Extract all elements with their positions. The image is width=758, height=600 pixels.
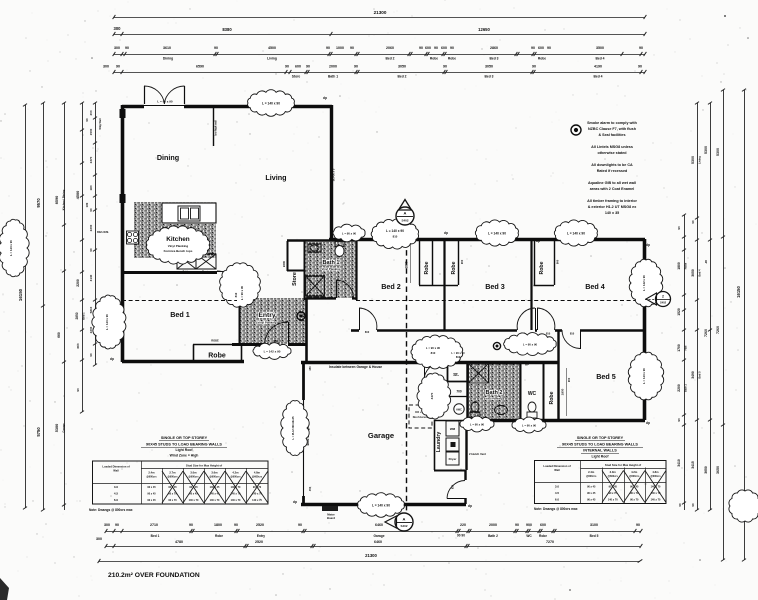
laundry appliances <box>446 421 459 436</box>
svg-text:Fridge: Fridge <box>183 271 191 274</box>
bottom dimension row 3 overall 21300 <box>99 561 640 563</box>
svg-text:L = 90 x 90: L = 90 x 90 <box>470 423 485 427</box>
svg-text:2.7m: 2.7m <box>169 471 176 475</box>
revision cloud below wc <box>512 417 546 433</box>
svg-text:90: 90 <box>636 523 640 527</box>
svg-text:L = 140 x 90: L = 140 x 90 <box>488 232 506 236</box>
laundry bottom wall <box>434 470 465 472</box>
svg-text:Entry: Entry <box>257 534 265 538</box>
svg-text:450: 450 <box>308 366 312 371</box>
svg-text:L = 143 x 90: L = 143 x 90 <box>642 368 646 384</box>
svg-text:areas with 2 Coat Enamel: areas with 2 Coat Enamel <box>590 187 634 191</box>
svg-text:5810: 5810 <box>89 306 93 313</box>
svg-text:90 x 70: 90 x 70 <box>630 499 639 502</box>
dimension row C room widths <box>114 54 645 56</box>
svg-text:90: 90 <box>189 523 193 527</box>
revision cloud bed5 robe dims <box>566 368 568 416</box>
svg-text:Stud Size for Max Height of: Stud Size for Max Height of <box>605 463 641 467</box>
svg-text:Bed 3: Bed 3 <box>485 75 494 79</box>
svg-text:Bed 2: Bed 2 <box>386 57 395 61</box>
left dimension chain 8590 kitchen-dining / 5300 garage <box>64 103 66 510</box>
svg-text:1800: 1800 <box>561 388 565 395</box>
svg-text:Bath 2: Bath 2 <box>485 390 502 396</box>
svg-text:Bed 4: Bed 4 <box>596 57 605 61</box>
svg-text:90: 90 <box>678 503 682 507</box>
svg-text:4190: 4190 <box>594 64 602 68</box>
wall right of living <box>330 105 333 241</box>
svg-text:L = 90 x 90: L = 90 x 90 <box>157 100 173 104</box>
svg-text:21300: 21300 <box>374 10 387 15</box>
svg-text:7260: 7260 <box>704 329 708 337</box>
svg-text:L = 142 x 90: L = 142 x 90 <box>642 275 646 291</box>
svg-text:21300: 21300 <box>365 553 377 558</box>
left dimension chain 16150 overall <box>25 105 27 508</box>
svg-text:4780: 4780 <box>175 540 183 544</box>
svg-text:L = PL12 200-90x45: L = PL12 200-90x45 <box>292 416 295 440</box>
svg-text:5750: 5750 <box>36 427 41 437</box>
svg-text:SINGLE OR TOP STOREY: SINGLE OR TOP STOREY <box>161 436 208 440</box>
svg-text:90: 90 <box>76 388 80 392</box>
bath2 left wall <box>466 362 468 420</box>
svg-text:Note: Dwangs @ 800crs max: Note: Dwangs @ 800crs max <box>89 508 133 512</box>
svg-text:900: 900 <box>556 259 560 264</box>
svg-text:Formica Bench tops: Formica Bench tops <box>164 249 193 253</box>
svg-text:3500: 3500 <box>596 46 604 50</box>
svg-text:90 90: 90 90 <box>457 534 465 538</box>
svg-text:810: 810 <box>546 332 551 336</box>
svg-text:660: 660 <box>57 332 61 338</box>
svg-text:L = 143 x 90: L = 143 x 90 <box>9 240 13 256</box>
svg-text:Bed 1: Bed 1 <box>170 310 190 319</box>
scan smudge bottom left corner <box>0 578 9 600</box>
svg-text:200: 200 <box>89 110 93 115</box>
bed4 door arc <box>537 308 539 330</box>
svg-text:4.5: 4.5 <box>114 492 119 496</box>
svg-text:140 x 70: 140 x 70 <box>210 499 220 502</box>
svg-text:4500: 4500 <box>268 46 276 50</box>
svg-text:90: 90 <box>89 353 93 357</box>
svg-text:Bath 2: Bath 2 <box>684 383 688 391</box>
svg-text:900: 900 <box>567 377 571 382</box>
double entrance door arcs on top wall <box>144 86 146 104</box>
right dimension chain second <box>697 103 699 510</box>
kitchen door arc <box>240 271 242 295</box>
svg-text:Bed 3: Bed 3 <box>490 57 499 61</box>
svg-text:90: 90 <box>419 46 423 50</box>
bed1 robe <box>193 345 195 362</box>
svg-text:90: 90 <box>532 64 536 68</box>
svg-text:2: 2 <box>662 295 664 299</box>
stud table right cross-outs <box>602 471 624 503</box>
svg-text:4500: 4500 <box>76 191 80 199</box>
svg-text:900: 900 <box>526 523 532 527</box>
right dimension chain inner segments <box>684 215 686 510</box>
svg-text:Store: Store <box>292 75 301 79</box>
svg-text:90: 90 <box>515 523 519 527</box>
svg-text:dp: dp <box>110 357 114 361</box>
svg-text:Bath 1: Bath 1 <box>322 260 339 266</box>
svg-text:ROBE: ROBE <box>211 339 219 343</box>
svg-text:2200: 2200 <box>89 326 93 333</box>
svg-text:3650: 3650 <box>704 466 708 474</box>
svg-text:L = 90 x 90: L = 90 x 90 <box>451 351 465 355</box>
svg-text:& exterior H1.2 UT MSG8 ex: & exterior H1.2 UT MSG8 ex <box>588 205 638 209</box>
svg-text:NZBC Clause F7, with flush: NZBC Clause F7, with flush <box>588 127 637 131</box>
svg-text:90: 90 <box>125 46 129 50</box>
svg-text:Bed 2: Bed 2 <box>398 75 407 79</box>
svg-text:90: 90 <box>677 418 681 422</box>
svg-text:1520: 1520 <box>677 308 681 316</box>
svg-text:Vinyl Planking: Vinyl Planking <box>168 244 189 248</box>
svg-text:90: 90 <box>638 64 642 68</box>
svg-text:300: 300 <box>104 523 110 527</box>
svg-text:2.4m: 2.4m <box>148 471 155 475</box>
svg-text:600: 600 <box>538 46 544 50</box>
svg-text:4.8m: 4.8m <box>652 470 659 474</box>
svg-text:2200: 2200 <box>89 224 93 231</box>
smoke alarm hall <box>493 342 500 349</box>
svg-text:4470: 4470 <box>430 392 434 399</box>
bed4 robe <box>534 239 536 285</box>
svg-text:3050: 3050 <box>691 269 695 277</box>
dashed link to section marker <box>645 299 655 301</box>
svg-text:600: 600 <box>425 46 431 50</box>
svg-text:S402: S402 <box>401 219 408 223</box>
svg-text:WC: WC <box>528 391 537 397</box>
bed3-bed4 divider wall <box>530 239 532 330</box>
entry left wall <box>239 298 241 344</box>
svg-text:Store: Store <box>292 272 298 286</box>
svg-text:600: 600 <box>295 64 301 68</box>
wall left exterior of dining and bed1 <box>121 105 125 362</box>
svg-text:90 x 45: 90 x 45 <box>147 493 156 496</box>
svg-text:@600crs: @600crs <box>209 476 220 479</box>
bed2 and bed3 robes <box>419 239 421 285</box>
svg-text:Stud Size for Max Height of: Stud Size for Max Height of <box>186 464 222 468</box>
svg-text:3415: 3415 <box>691 461 695 469</box>
bath1 fixtures basin <box>308 244 321 252</box>
south wall bath2-wc-robe-bed5 <box>466 419 645 423</box>
kitchen island bench and stove <box>162 203 216 223</box>
svg-text:Robe: Robe <box>448 57 456 61</box>
revision cloud on top wall of living <box>248 90 295 117</box>
hall-garage separating wall insulate <box>301 361 558 364</box>
svg-text:90X45 STUDS TO LOAD BEARING WA: 90X45 STUDS TO LOAD BEARING WALLS <box>562 443 638 447</box>
svg-text:2710: 2710 <box>150 523 158 527</box>
svg-text:3140: 3140 <box>89 274 93 281</box>
svg-text:Wdg Wall: Wdg Wall <box>99 118 102 129</box>
svg-text:16150: 16150 <box>18 288 23 301</box>
svg-text:@600crs: @600crs <box>146 476 157 479</box>
svg-text:3050: 3050 <box>398 64 406 68</box>
svg-text:810: 810 <box>570 332 575 336</box>
svg-text:Bed 1: Bed 1 <box>82 312 86 320</box>
svg-text:16150: 16150 <box>736 286 741 298</box>
svg-text:WC: WC <box>526 534 532 538</box>
svg-text:300: 300 <box>114 26 122 31</box>
svg-text:All timber framing to interior: All timber framing to interior <box>587 199 637 203</box>
svg-text:90X45 STUDS TO LOAD BEARING WA: 90X45 STUDS TO LOAD BEARING WALLS <box>146 443 222 447</box>
kitchen cooktop circles <box>127 231 139 244</box>
st closet walls <box>447 363 449 381</box>
svg-text:Robe: Robe <box>430 57 438 61</box>
svg-text:90: 90 <box>89 208 93 212</box>
wall below kitchen <box>122 271 217 274</box>
svg-text:5300: 5300 <box>704 146 708 154</box>
svg-text:Bed 2: Bed 2 <box>381 282 401 291</box>
store walls <box>287 241 289 271</box>
svg-text:6460: 6460 <box>375 523 383 527</box>
svg-text:Robe: Robe <box>538 57 546 61</box>
svg-text:All downlights to be CA: All downlights to be CA <box>591 163 633 167</box>
svg-text:@600crs: @600crs <box>252 476 263 479</box>
svg-text:7270: 7270 <box>546 540 554 544</box>
svg-text:2370: 2370 <box>89 156 93 163</box>
svg-text:1000: 1000 <box>336 46 344 50</box>
svg-text:Living: Living <box>267 57 277 61</box>
svg-text:5300: 5300 <box>691 156 695 164</box>
svg-text:Bed 4: Bed 4 <box>585 282 605 291</box>
svg-text:90: 90 <box>691 220 695 224</box>
svg-text:Bed 4: Bed 4 <box>594 75 603 79</box>
meter board <box>322 506 338 511</box>
svg-text:Living: Living <box>698 156 702 164</box>
svg-text:Insulate between Garage & Hous: Insulate between Garage & House <box>329 365 382 369</box>
garage-laundry door arc <box>447 498 465 500</box>
svg-text:2060: 2060 <box>386 46 394 50</box>
section dashed line A-A vertical <box>406 241 408 512</box>
svg-text:Pantry: Pantry <box>202 271 210 274</box>
svg-text:Kitchen / Dining: Kitchen / Dining <box>62 189 66 210</box>
svg-text:3100: 3100 <box>590 523 598 527</box>
svg-text:90: 90 <box>85 118 89 122</box>
svg-text:810: 810 <box>234 292 238 297</box>
svg-text:8380: 8380 <box>222 27 232 32</box>
revision cloud over left dimension lines <box>0 219 29 276</box>
revision cloud below bath2 <box>460 416 494 432</box>
svg-text:WP: WP <box>525 364 529 367</box>
svg-text:Aqualine GIB to all wet wall: Aqualine GIB to all wet wall <box>588 181 636 185</box>
svg-text:S402: S402 <box>660 301 667 305</box>
svg-text:Vinyl Planking: Vinyl Planking <box>485 398 503 401</box>
svg-text:Bed 5: Bed 5 <box>596 372 616 381</box>
smoke alarm symbol in notes <box>571 125 581 135</box>
revision cloud bottom right of page <box>729 490 758 522</box>
svg-text:dp: dp <box>536 239 540 243</box>
svg-text:S402: S402 <box>400 524 407 528</box>
svg-text:4.5: 4.5 <box>555 491 560 495</box>
kitchen hatched floor <box>134 202 216 258</box>
svg-text:Robe: Robe <box>451 261 457 274</box>
store and bath top wall <box>287 239 356 242</box>
svg-text:2860: 2860 <box>490 46 498 50</box>
wing right exterior wall <box>643 239 647 420</box>
revision cloud kitchen-entry doors <box>220 263 261 307</box>
wall bottom of bed1 <box>122 360 244 364</box>
bedroom corridor wall with door openings <box>351 329 359 332</box>
svg-text:@600crs: @600crs <box>230 476 241 479</box>
smoke alarm entry <box>297 312 305 320</box>
bottom dimension row 2 <box>106 546 640 548</box>
svg-text:810: 810 <box>365 330 370 334</box>
bath2 basin <box>495 406 508 415</box>
svg-text:2 Hutch Vent: 2 Hutch Vent <box>469 452 486 456</box>
svg-text:& Seal facilities: & Seal facilities <box>598 133 625 137</box>
svg-text:-90: -90 <box>704 260 708 265</box>
svg-text:3.0: 3.0 <box>555 485 560 489</box>
svg-text:90: 90 <box>214 46 218 50</box>
svg-text:90: 90 <box>89 248 93 252</box>
revision cloud bath1 lintel <box>333 224 365 242</box>
svg-text:900: 900 <box>460 259 464 264</box>
svg-text:HWC: HWC <box>456 409 462 412</box>
svg-text:90: 90 <box>547 46 551 50</box>
svg-text:90 x 70: 90 x 70 <box>168 499 177 502</box>
svg-text:140 x 70: 140 x 70 <box>231 499 241 502</box>
svg-text:L = 90 x 90: L = 90 x 90 <box>240 285 244 300</box>
svg-text:90: 90 <box>298 523 302 527</box>
svg-text:Dining: Dining <box>163 57 173 61</box>
svg-text:Wall: Wall <box>113 469 119 473</box>
revision cloud garage bottom wall <box>358 493 405 518</box>
svg-text:4.2m: 4.2m <box>232 471 239 475</box>
svg-text:L = 140 x 90: L = 140 x 90 <box>262 102 280 106</box>
svg-text:90: 90 <box>285 64 289 68</box>
svg-text:L = 140 x 90: L = 140 x 90 <box>567 232 585 236</box>
svg-text:Dining: Dining <box>157 153 179 162</box>
svg-text:600: 600 <box>540 523 546 527</box>
svg-text:Entry: Entry <box>258 312 276 319</box>
svg-text:2300: 2300 <box>282 260 286 267</box>
svg-text:Garage: Garage <box>368 431 394 440</box>
roof access dashed box <box>409 405 432 428</box>
svg-text:3.6m: 3.6m <box>211 471 218 475</box>
svg-text:Bed 1: Bed 1 <box>151 534 160 538</box>
svg-text:Vinyl Planking: Vinyl Planking <box>321 267 340 271</box>
svg-text:Bath 1: Bath 1 <box>328 75 338 79</box>
svg-text:@600crs: @600crs <box>167 476 178 479</box>
revision cloud bed3-bed4 doors <box>504 333 557 356</box>
svg-text:Vinyl Planking: Vinyl Planking <box>257 321 276 325</box>
revision cloud left wall of bed1 <box>92 295 126 349</box>
svg-text:90: 90 <box>639 46 643 50</box>
svg-text:2000: 2000 <box>489 523 497 527</box>
left dimension chain 9570/5750 <box>43 103 45 510</box>
revision cloud under entry door <box>253 343 291 360</box>
bath2-wc wall <box>520 362 522 420</box>
svg-text:Robe: Robe <box>539 534 547 538</box>
svg-text:90: 90 <box>306 64 310 68</box>
svg-text:9570: 9570 <box>36 198 41 208</box>
revision cloud right wall upper <box>629 259 662 306</box>
svg-text:Wind Zone = High: Wind Zone = High <box>170 454 199 458</box>
svg-text:3410: 3410 <box>677 459 681 467</box>
robe internal dim 1800 <box>410 242 412 283</box>
svg-text:@600crs: @600crs <box>650 475 661 478</box>
svg-text:Living: Living <box>265 173 286 182</box>
svg-text:5300: 5300 <box>55 424 59 432</box>
bath1 right wall <box>355 239 357 300</box>
laundry west wall <box>434 420 436 470</box>
svg-text:Laundry: Laundry <box>436 432 442 453</box>
svg-text:A: A <box>403 517 406 522</box>
stud table right grid <box>535 461 667 504</box>
bed5 door arc <box>580 330 582 349</box>
svg-text:12650: 12650 <box>478 27 490 32</box>
revision clouds corridor nook doors <box>411 335 463 369</box>
svg-text:700: 700 <box>456 390 462 394</box>
left dimension chain small segments <box>95 103 97 365</box>
svg-text:6.0: 6.0 <box>555 498 560 502</box>
nook door arc 1 <box>424 362 426 380</box>
svg-text:3.0: 3.0 <box>114 485 119 489</box>
svg-text:1500: 1500 <box>89 128 93 135</box>
bath1 bottom wall <box>304 297 336 299</box>
svg-text:Robe: Robe <box>539 261 545 274</box>
svg-text:A: A <box>404 211 407 216</box>
stud table left cross-outs <box>162 471 183 503</box>
svg-text:1800: 1800 <box>677 262 681 270</box>
svg-text:Bed 5: Bed 5 <box>590 534 599 538</box>
svg-text:2520: 2520 <box>256 523 264 527</box>
svg-text:90 x 45: 90 x 45 <box>147 486 156 489</box>
svg-text:Bed 4: Bed 4 <box>698 269 702 277</box>
svg-text:Smoke alarm to comply with: Smoke alarm to comply with <box>587 121 638 125</box>
st closet door clouds area cupboard 700 <box>447 396 467 398</box>
dimension line overall 21300 (top row A) <box>114 17 645 19</box>
svg-text:90: 90 <box>443 64 447 68</box>
bottom dimension row 1 room widths <box>106 531 641 533</box>
revision cloud right wall lower <box>628 352 663 400</box>
svg-text:L = 143 x 90: L = 143 x 90 <box>105 314 109 330</box>
svg-text:140 x 70: 140 x 70 <box>608 499 618 502</box>
scan speck top right <box>724 15 726 17</box>
svg-text:2.4m: 2.4m <box>588 470 595 474</box>
garage left wall with door opening <box>302 362 305 400</box>
svg-text:Rated if recessed: Rated if recessed <box>597 169 628 173</box>
svg-text:L = 140 x 90: L = 140 x 90 <box>372 504 390 508</box>
svg-text:L = 90 x 90: L = 90 x 90 <box>342 232 357 236</box>
svg-text:dp: dp <box>323 96 327 100</box>
entry front door arc <box>288 322 290 344</box>
svg-text:2850: 2850 <box>75 312 79 319</box>
svg-text:90 x 45: 90 x 45 <box>587 499 596 502</box>
svg-text:Garage: Garage <box>374 534 385 538</box>
svg-text:2000: 2000 <box>329 64 337 68</box>
dimension row B 300/8380/12650 <box>114 34 645 36</box>
svg-text:6.0: 6.0 <box>114 498 119 502</box>
svg-text:90: 90 <box>115 523 119 527</box>
svg-text:Fridge: Fridge <box>182 265 190 268</box>
entry hatched floor <box>239 298 306 344</box>
svg-text:90: 90 <box>691 503 695 507</box>
right dimension chain overall 16150 <box>744 90 746 560</box>
svg-text:3490: 3490 <box>691 371 695 379</box>
bed2 door arc <box>359 308 361 330</box>
svg-text:810: 810 <box>431 351 436 355</box>
kitchen pantry crossed boxes <box>177 254 196 269</box>
svg-text:90: 90 <box>326 46 330 50</box>
right dimension chain third 7260 <box>710 103 712 510</box>
svg-text:140 x 70: 140 x 70 <box>252 499 262 502</box>
svg-text:@600crs: @600crs <box>188 476 199 479</box>
robe-bed5 wall <box>557 330 559 420</box>
svg-text:@600crs: @600crs <box>629 475 640 478</box>
svg-text:220: 220 <box>460 523 466 527</box>
revision cloud wing top 1 <box>371 219 418 249</box>
svg-text:90: 90 <box>234 523 238 527</box>
svg-text:dp: dp <box>468 504 472 508</box>
